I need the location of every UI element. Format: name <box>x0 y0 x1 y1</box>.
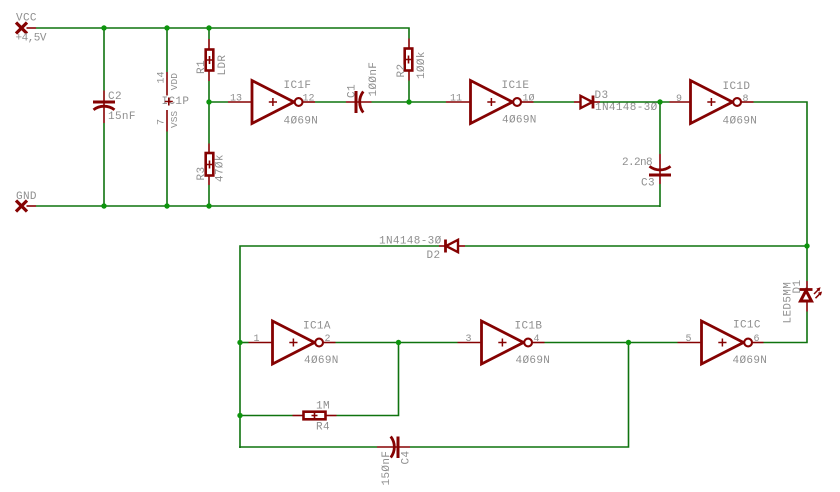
junction GND IC1P <box>164 203 169 208</box>
wire VCC rail <box>36 28 409 39</box>
capacitor C4 150nF <box>377 437 413 486</box>
svg-text:D1: D1 <box>792 280 804 294</box>
wire R4 left <box>240 415 293 417</box>
svg-text:6: 6 <box>754 334 760 345</box>
IC1P power pins <box>157 71 190 131</box>
wire R2 bottom <box>408 81 410 103</box>
svg-text:IC1A: IC1A <box>303 321 331 333</box>
wire C2 top <box>103 28 105 91</box>
junction VCC C2 <box>101 25 106 30</box>
svg-text:IC1E: IC1E <box>502 80 530 92</box>
wire 12 to C1 <box>315 101 346 103</box>
svg-text:4Ø69N: 4Ø69N <box>304 355 339 367</box>
wire R1 bottom <box>208 81 210 102</box>
inverter IC1E <box>446 80 537 127</box>
svg-text:+4,5V: +4,5V <box>16 33 47 45</box>
junction feedback right <box>804 243 809 248</box>
svg-text:IC1F: IC1F <box>284 80 312 92</box>
wire R3 top <box>208 102 210 144</box>
inverter IC1B <box>458 321 551 368</box>
svg-text:7: 7 <box>157 119 168 125</box>
junction IC1A output R4 <box>396 340 401 345</box>
wire D3 to junction to IC1D <box>600 101 670 103</box>
junction GND C2 <box>101 203 106 208</box>
resistor R4 1M <box>293 401 337 434</box>
wire R1 top <box>208 28 210 39</box>
wire bottom right up <box>410 343 629 448</box>
svg-text:2.2n8: 2.2n8 <box>622 157 652 169</box>
wire 13 <box>209 101 228 103</box>
junction R2 net <box>406 99 411 104</box>
resistor R1 LDR <box>196 39 229 81</box>
svg-text:12: 12 <box>303 94 315 105</box>
svg-text:4: 4 <box>534 334 540 345</box>
svg-text:D3: D3 <box>595 90 609 102</box>
svg-text:C4: C4 <box>401 451 413 465</box>
svg-text:4Ø69N: 4Ø69N <box>516 355 551 367</box>
svg-text:VCC: VCC <box>16 13 37 25</box>
wire 1 <box>240 342 249 344</box>
resistor R2 100k <box>396 39 428 81</box>
svg-text:9: 9 <box>676 94 682 105</box>
wire C3 top <box>659 102 661 154</box>
wire C1 to junction to IC1E <box>372 101 447 103</box>
svg-text:1ØØk: 1ØØk <box>416 51 428 79</box>
svg-text:LDR: LDR <box>217 55 229 76</box>
junction D3 C3 <box>657 99 662 104</box>
capacitor C3 2.2n8 <box>622 154 671 190</box>
wire 2 to 3 <box>336 342 458 344</box>
svg-text:IC1D: IC1D <box>723 81 751 93</box>
wire LED to IC1C out <box>764 312 808 343</box>
svg-text:VSS: VSS <box>169 111 180 128</box>
svg-text:R2: R2 <box>396 64 408 78</box>
junction IC1B output C4 <box>626 340 631 345</box>
svg-text:R4: R4 <box>316 422 330 434</box>
wire R3 bottom <box>208 185 210 206</box>
LED D1 <box>783 280 823 324</box>
svg-text:4Ø69N: 4Ø69N <box>733 355 768 367</box>
inverter IC1A <box>249 321 339 368</box>
wire 8 to right rail <box>754 102 808 281</box>
svg-text:IC1C: IC1C <box>733 320 761 332</box>
svg-text:R3: R3 <box>196 167 208 181</box>
wire IC1P top <box>166 28 168 72</box>
svg-text:R1: R1 <box>196 60 208 74</box>
junction VCC IC1P <box>164 25 169 30</box>
wire 4 to 5 <box>545 342 678 344</box>
diode D3 1N4148 <box>574 90 658 114</box>
svg-text:VDD: VDD <box>169 73 180 90</box>
svg-text:47Øk: 47Øk <box>215 154 227 182</box>
wire bottom left <box>239 446 377 448</box>
svg-text:3: 3 <box>466 334 472 345</box>
svg-text:2: 2 <box>325 334 331 345</box>
diode D2 1N4148 feedback <box>379 236 465 263</box>
wire GND rail <box>36 205 660 207</box>
inverter IC1D <box>670 81 758 128</box>
svg-text:4Ø69N: 4Ø69N <box>723 116 758 128</box>
svg-text:1Ø: 1Ø <box>523 93 535 105</box>
junction VCC R1 <box>206 25 211 30</box>
svg-text:C2: C2 <box>108 91 122 103</box>
svg-text:C1: C1 <box>347 84 359 98</box>
inverter IC1F <box>228 80 318 128</box>
wire IC1P bottom <box>166 132 168 207</box>
wire feedback right <box>465 245 807 247</box>
svg-text:D2: D2 <box>427 250 441 262</box>
resistor R3 470k <box>196 144 227 186</box>
svg-text:1M: 1M <box>316 401 330 413</box>
supply symbol GND <box>16 191 37 212</box>
svg-text:15ØnF: 15ØnF <box>381 451 393 486</box>
junction R4 left <box>237 413 242 418</box>
capacitor C2 <box>93 91 136 124</box>
wire feedback left <box>240 246 439 448</box>
svg-text:5: 5 <box>686 334 692 345</box>
svg-text:13: 13 <box>230 94 242 105</box>
svg-text:IC1B: IC1B <box>515 321 543 333</box>
svg-text:C3: C3 <box>641 178 655 190</box>
svg-text:4Ø69N: 4Ø69N <box>284 116 319 128</box>
svg-text:15nF: 15nF <box>108 111 136 123</box>
wire 10 to D3 <box>534 101 575 103</box>
junction GND R3 <box>206 203 211 208</box>
svg-text:4Ø69N: 4Ø69N <box>502 115 537 127</box>
junction IC1A input <box>237 340 242 345</box>
capacitor C1 100nF <box>346 62 380 113</box>
wire C2 bottom <box>103 123 105 206</box>
svg-text:1ØØnF: 1ØØnF <box>368 62 380 97</box>
svg-text:1: 1 <box>254 334 260 345</box>
wire R4 right up <box>337 343 399 416</box>
svg-text:1N4148-3Ø: 1N4148-3Ø <box>595 102 658 114</box>
svg-text:8: 8 <box>743 94 749 105</box>
svg-text:14: 14 <box>157 71 168 83</box>
inverter IC1C <box>678 320 768 368</box>
svg-text:11: 11 <box>450 94 462 105</box>
junction R1 R3 pin13 <box>206 99 211 104</box>
svg-text:GND: GND <box>16 191 37 203</box>
wire C3 bottom <box>659 184 661 207</box>
supply symbol VCC <box>16 13 47 45</box>
